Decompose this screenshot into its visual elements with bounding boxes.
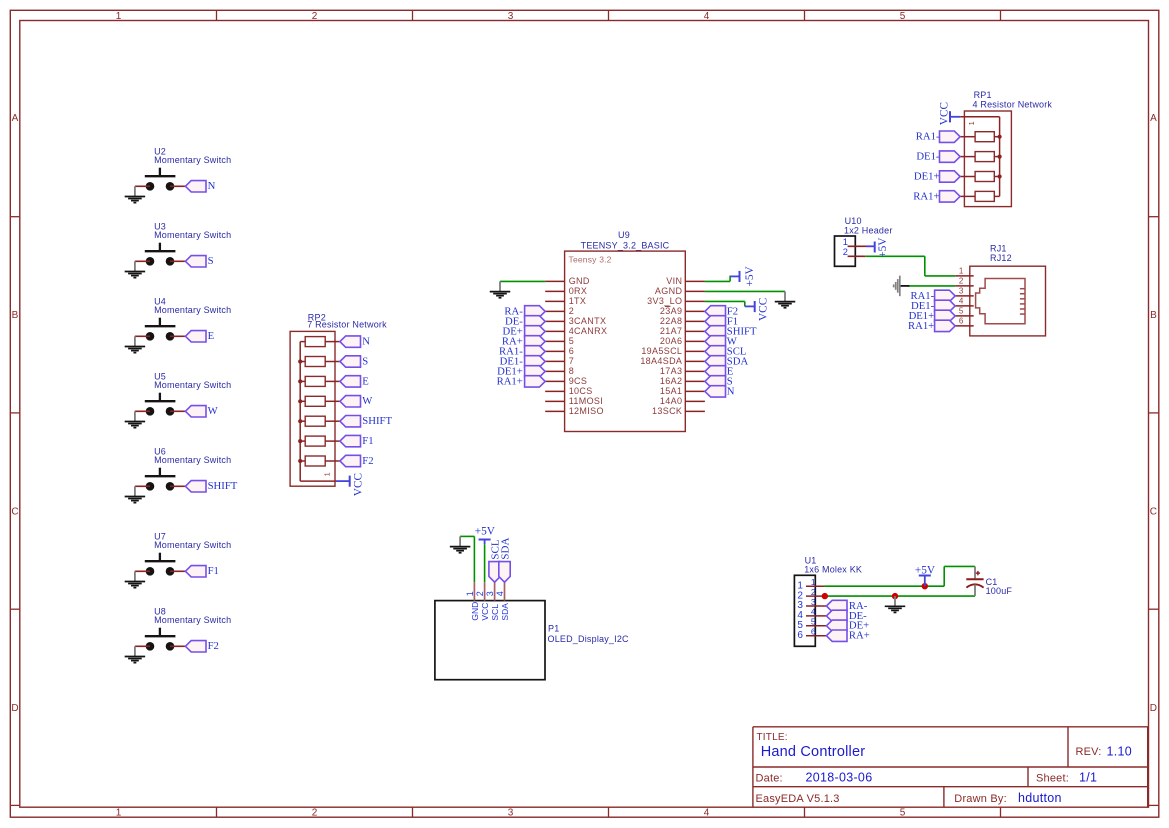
svg-text:1: 1: [969, 121, 976, 125]
svg-text:REV:: REV:: [1076, 746, 1102, 758]
svg-text:16A2: 16A2: [660, 376, 682, 386]
svg-text:OLED_Display_I2C: OLED_Display_I2C: [548, 634, 630, 644]
svg-text:Date:: Date:: [756, 772, 783, 784]
svg-text:5: 5: [959, 307, 964, 316]
svg-text:W: W: [362, 395, 373, 407]
svg-text:4 Resistor Network: 4 Resistor Network: [973, 100, 1053, 110]
svg-text:13SCK: 13SCK: [652, 406, 682, 416]
svg-text:B: B: [12, 310, 19, 321]
svg-text:4: 4: [495, 591, 505, 596]
svg-text:4: 4: [704, 11, 710, 22]
svg-text:SCL: SCL: [490, 604, 500, 621]
svg-text:SHIFT: SHIFT: [362, 415, 392, 427]
svg-text:1/1: 1/1: [1079, 771, 1097, 785]
svg-text:hdutton: hdutton: [1018, 791, 1062, 805]
svg-text:A: A: [12, 113, 19, 124]
svg-text:14A0: 14A0: [660, 396, 682, 406]
svg-text:E: E: [362, 375, 369, 387]
svg-text:F1: F1: [208, 565, 219, 577]
svg-text:D: D: [11, 703, 18, 714]
svg-text:1: 1: [959, 267, 964, 276]
svg-text:VCC: VCC: [353, 473, 365, 496]
svg-text:9CS: 9CS: [569, 376, 588, 386]
svg-text:N: N: [208, 180, 216, 192]
svg-text:RA1-: RA1-: [916, 131, 940, 143]
svg-text:2: 2: [843, 247, 848, 257]
svg-text:VCC: VCC: [757, 298, 769, 321]
svg-text:11MOSI: 11MOSI: [569, 396, 603, 406]
svg-text:RA1+: RA1+: [908, 320, 934, 332]
svg-text:Momentary Switch: Momentary Switch: [154, 455, 231, 465]
svg-text:21A7: 21A7: [660, 326, 682, 336]
svg-text:GND: GND: [470, 602, 480, 621]
svg-text:3: 3: [508, 11, 514, 22]
svg-text:B: B: [1150, 310, 1157, 321]
svg-text:P1: P1: [548, 623, 559, 633]
svg-text:VCC: VCC: [480, 603, 490, 621]
svg-text:S: S: [362, 355, 368, 367]
svg-text:1: 1: [116, 808, 122, 819]
svg-text:10CS: 10CS: [569, 386, 593, 396]
svg-text:1.10: 1.10: [1107, 745, 1133, 759]
svg-text:W: W: [208, 405, 219, 417]
svg-text:3: 3: [485, 591, 495, 596]
svg-text:Momentary Switch: Momentary Switch: [154, 615, 231, 625]
svg-text:F2: F2: [208, 640, 219, 652]
svg-text:2: 2: [959, 277, 964, 286]
svg-text:RJ12: RJ12: [990, 253, 1012, 263]
svg-text:8: 8: [569, 366, 574, 376]
svg-text:2: 2: [312, 808, 318, 819]
svg-text:GND: GND: [569, 276, 590, 286]
svg-text:22A8: 22A8: [660, 316, 682, 326]
svg-text:RP1: RP1: [974, 90, 992, 100]
svg-text:2: 2: [475, 591, 485, 596]
svg-text:3CANTX: 3CANTX: [569, 316, 607, 326]
svg-text:E: E: [208, 330, 215, 342]
svg-text:+5V: +5V: [744, 265, 756, 286]
svg-text:1: 1: [325, 472, 332, 476]
svg-text:12MISO: 12MISO: [569, 406, 604, 416]
svg-text:1: 1: [465, 591, 475, 596]
svg-text:N: N: [362, 336, 370, 348]
svg-text:3: 3: [959, 287, 964, 296]
svg-text:S: S: [208, 255, 214, 267]
svg-text:7: 7: [569, 356, 574, 366]
svg-text:6: 6: [959, 317, 964, 326]
svg-text:Momentary Switch: Momentary Switch: [154, 540, 231, 550]
svg-text:RJ1: RJ1: [990, 243, 1007, 253]
svg-text:Momentary Switch: Momentary Switch: [154, 230, 231, 240]
svg-text:23A9: 23A9: [660, 306, 682, 316]
svg-text:5: 5: [900, 11, 906, 22]
svg-text:5: 5: [569, 336, 574, 346]
svg-text:5: 5: [900, 808, 906, 819]
svg-text:1TX: 1TX: [569, 296, 587, 306]
svg-text:18A4SDA: 18A4SDA: [640, 356, 682, 366]
svg-text:2018-03-06: 2018-03-06: [806, 771, 873, 785]
svg-text:RA+: RA+: [849, 630, 870, 642]
svg-text:0RX: 0RX: [569, 286, 588, 296]
svg-text:DE1-: DE1-: [916, 151, 940, 163]
svg-text:6: 6: [569, 346, 574, 356]
svg-text:Momentary Switch: Momentary Switch: [154, 155, 231, 165]
svg-text:U10: U10: [845, 216, 862, 226]
svg-text:6: 6: [797, 630, 803, 641]
svg-text:VCC: VCC: [938, 102, 950, 125]
svg-text:2: 2: [312, 11, 318, 22]
svg-text:1x6 Molex KK: 1x6 Molex KK: [804, 565, 862, 575]
svg-text:Momentary Switch: Momentary Switch: [154, 380, 231, 390]
svg-text:U9: U9: [618, 230, 630, 240]
svg-text:VIN: VIN: [666, 276, 682, 286]
svg-text:3V3_LO: 3V3_LO: [647, 296, 682, 306]
svg-text:+5V: +5V: [475, 525, 496, 537]
svg-text:N: N: [727, 385, 735, 397]
svg-text:7 Resistor Network: 7 Resistor Network: [307, 320, 387, 330]
svg-text:SDA: SDA: [500, 603, 510, 621]
svg-text:A: A: [1150, 113, 1157, 124]
svg-text:+5V: +5V: [877, 237, 889, 258]
svg-text:100uF: 100uF: [986, 586, 1013, 596]
svg-text:SDA: SDA: [499, 538, 511, 560]
svg-text:+5V: +5V: [915, 565, 936, 577]
svg-text:3: 3: [508, 808, 514, 819]
svg-text:Hand Controller: Hand Controller: [761, 744, 866, 760]
svg-text:Teensy 3.2: Teensy 3.2: [569, 255, 612, 265]
svg-text:TITLE:: TITLE:: [757, 732, 788, 743]
svg-text:F1: F1: [362, 435, 373, 447]
svg-text:1: 1: [116, 11, 122, 22]
svg-text:F2: F2: [362, 455, 373, 467]
svg-text:4: 4: [959, 297, 964, 306]
svg-text:17A3: 17A3: [660, 366, 682, 376]
svg-text:20A6: 20A6: [660, 336, 682, 346]
svg-text:EasyEDA V5.1.3: EasyEDA V5.1.3: [756, 793, 840, 805]
svg-text:Momentary Switch: Momentary Switch: [154, 305, 231, 315]
svg-text:TEENSY_3.2_BASIC: TEENSY_3.2_BASIC: [581, 241, 670, 251]
svg-text:AGND: AGND: [655, 286, 683, 296]
svg-text:2: 2: [569, 306, 574, 316]
svg-text:Sheet:: Sheet:: [1036, 772, 1069, 784]
svg-text:RA1+: RA1+: [913, 190, 939, 202]
svg-text:Drawn By:: Drawn By:: [954, 793, 1007, 805]
svg-text:19A5SCL: 19A5SCL: [641, 346, 682, 356]
svg-text:DE1+: DE1+: [914, 170, 940, 182]
svg-text:RA1+: RA1+: [497, 375, 523, 387]
svg-text:D: D: [1150, 703, 1157, 714]
svg-text:1x2 Header: 1x2 Header: [844, 226, 893, 236]
svg-text:15A1: 15A1: [660, 386, 682, 396]
svg-text:C: C: [1150, 506, 1157, 517]
svg-text:C: C: [11, 506, 18, 517]
svg-text:4: 4: [704, 808, 710, 819]
svg-text:4CANRX: 4CANRX: [569, 326, 608, 336]
svg-text:1: 1: [843, 237, 848, 247]
svg-text:SHIFT: SHIFT: [208, 480, 238, 492]
